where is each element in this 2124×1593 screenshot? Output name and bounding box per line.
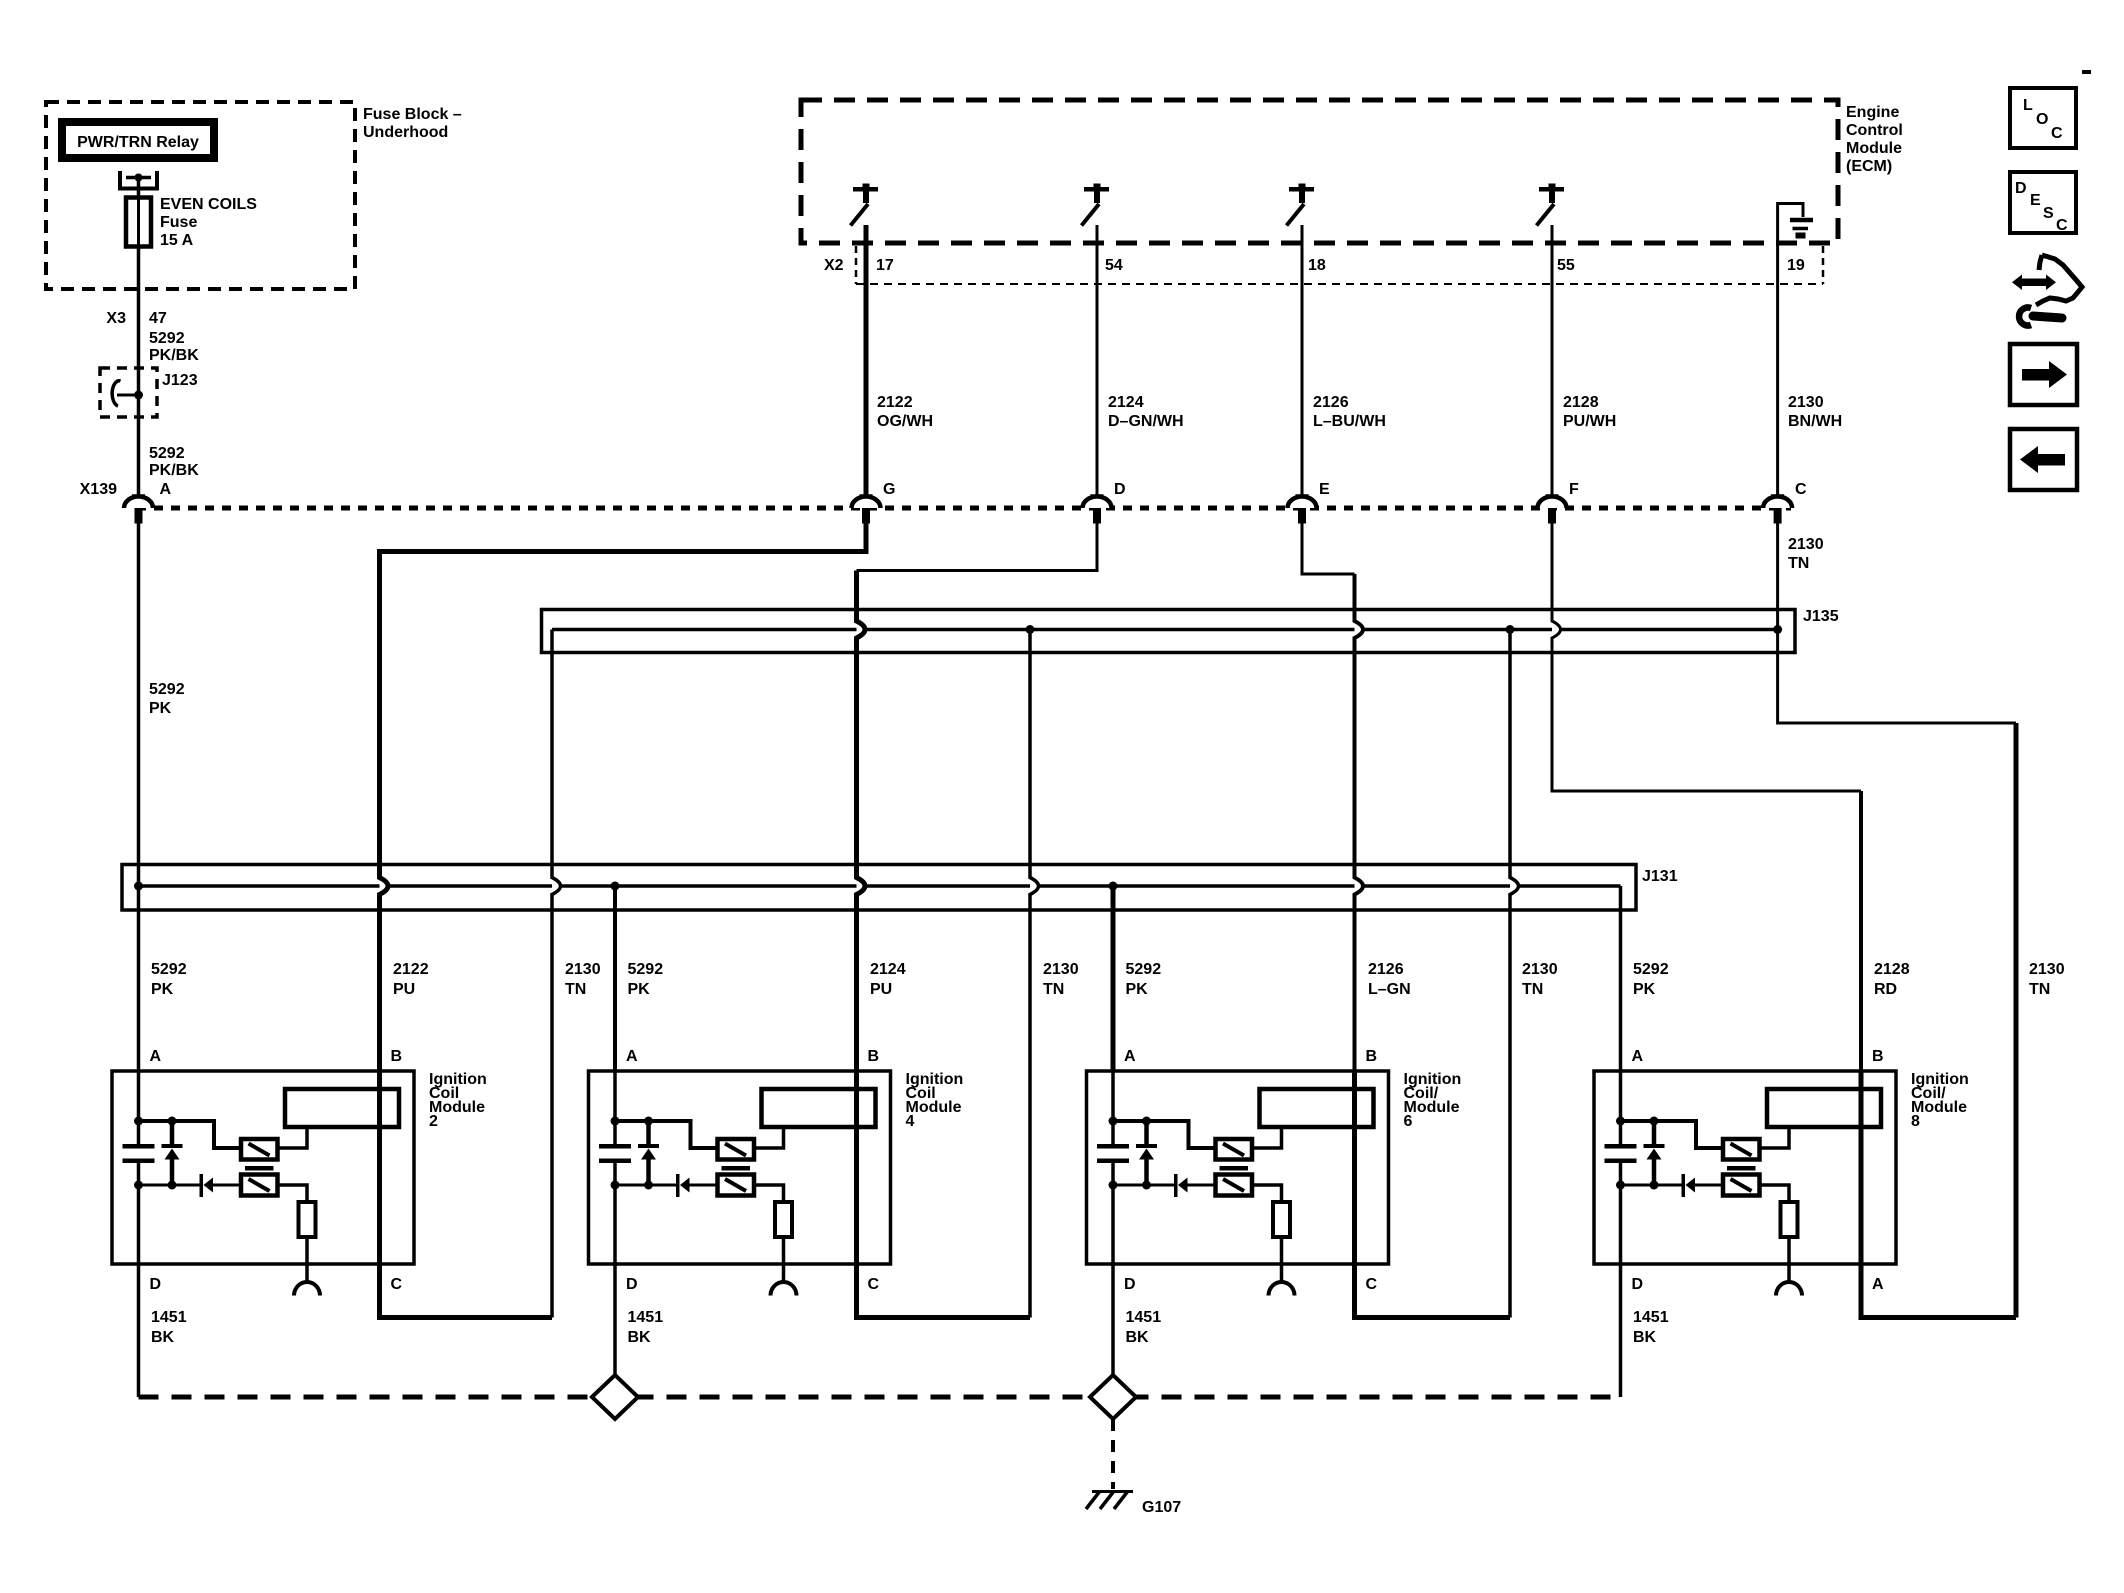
- svg-text:1451: 1451: [1633, 1309, 1669, 1326]
- svg-text:E: E: [1319, 481, 1330, 498]
- label 2130 BN/WH: [1788, 394, 1842, 430]
- relay PWR/TRN Relay: [62, 122, 214, 158]
- module 2 resistor: [299, 1202, 316, 1237]
- svg-text:RD: RD: [1874, 981, 1897, 998]
- svg-text:PU: PU: [870, 981, 892, 998]
- svg-text:PWR/TRN Relay: PWR/TRN Relay: [77, 134, 199, 151]
- svg-text:1451: 1451: [1126, 1309, 1162, 1326]
- svg-text:BN/WH: BN/WH: [1788, 413, 1842, 430]
- svg-text:17: 17: [876, 257, 894, 274]
- X139 terminal A: [124, 496, 153, 524]
- label 2130 TN below C: [1788, 536, 1824, 572]
- module 8 wire opto2 to resistor: [1760, 1185, 1790, 1202]
- module 6 pin letters D C: [1124, 1276, 1378, 1293]
- label X3 47: [106, 310, 166, 327]
- module 2 zener diode: [162, 1121, 183, 1185]
- svg-text:5292: 5292: [149, 445, 185, 462]
- module 6 top rail: [1113, 1121, 1216, 1148]
- label 1451 BK module 8: [1633, 1309, 1669, 1346]
- svg-text:2126: 2126: [1368, 961, 1404, 978]
- label 2126 L-BU/WH: [1313, 394, 1386, 430]
- ignition coil module 4 box: [589, 1071, 964, 1264]
- module 8 zener diode: [1644, 1121, 1665, 1185]
- module 8 spark tower arc: [1776, 1282, 1802, 1296]
- module 8 wire opto1 to coil: [1760, 1127, 1790, 1148]
- module 6 lower rail: [1113, 1184, 1175, 1187]
- splice diamond at module 4 ground: [592, 1375, 638, 1419]
- module 6 low reference wire to riser: [1355, 1264, 1511, 1318]
- svg-text:A: A: [1124, 1048, 1136, 1065]
- label 2128 RD column: [1874, 961, 1910, 998]
- svg-text:BK: BK: [1126, 1329, 1150, 1346]
- svg-text:C: C: [868, 1276, 880, 1293]
- module 4 wire 1451 BK pin D: [613, 1264, 617, 1397]
- X139 terminal D: [1083, 481, 1126, 524]
- wire relay to fuse: [137, 178, 141, 199]
- junction J135 dot at 2130 module 4 riser: [1026, 625, 1035, 634]
- module 8 optocoupler lower: [1723, 1175, 1760, 1196]
- svg-text:D: D: [2015, 180, 2027, 197]
- wire 2128 RD module 8 column: [1859, 791, 1863, 1264]
- relay contact terminal symbol: [120, 171, 157, 189]
- svg-text:C: C: [1795, 481, 1807, 498]
- svg-text:PK/BK: PK/BK: [149, 347, 199, 364]
- wire 2124 module 4 column: [857, 571, 866, 1265]
- svg-text:C: C: [391, 1276, 403, 1293]
- module 6 optocoupler lower: [1216, 1175, 1253, 1196]
- module 2 core bar: [245, 1166, 274, 1171]
- wire 2124 D-GN/WH pin 54 to X139 D: [1096, 225, 1099, 496]
- label 2126 L-GN column: [1368, 961, 1411, 998]
- module 4 low reference wire to riser: [857, 1264, 1031, 1318]
- module 6 wire resistor to tower: [1280, 1237, 1284, 1283]
- ECM output driver 3: [1287, 184, 1315, 226]
- svg-text:D: D: [626, 1276, 638, 1293]
- wire 5292 PK feed module 4 A: [613, 886, 617, 1071]
- module 6 core bar: [1220, 1166, 1249, 1171]
- module 6 optocoupler upper: [1216, 1139, 1253, 1160]
- svg-text:X2: X2: [824, 257, 844, 274]
- svg-text:55: 55: [1557, 257, 1575, 274]
- module 8 capacitor: [1605, 1144, 1637, 1163]
- wire 2128 PU/WH pin 55 to X139 F: [1551, 225, 1554, 496]
- svg-text:6: 6: [1404, 1113, 1413, 1130]
- label 1451 BK module 2: [151, 1309, 187, 1346]
- wire 2126 module 6 column: [1355, 574, 1364, 1264]
- wire 5292 PK feed module 6 A: [1111, 886, 1116, 1071]
- svg-text:Engine: Engine: [1846, 104, 1899, 121]
- svg-text:Fuse: Fuse: [160, 214, 197, 231]
- module 8 diode: [1682, 1174, 1696, 1197]
- junction J131 dot at module 4 A: [611, 882, 620, 891]
- module 4 optocoupler upper: [718, 1139, 755, 1160]
- svg-text:2128: 2128: [1874, 961, 1910, 978]
- svg-text:Fuse Block –: Fuse Block –: [363, 106, 462, 123]
- svg-text:Control: Control: [1846, 122, 1903, 139]
- label 2128 PU/WH: [1563, 394, 1616, 430]
- svg-text:5292: 5292: [628, 961, 664, 978]
- svg-text:D–GN/WH: D–GN/WH: [1108, 413, 1184, 430]
- module 2 coil secondary rect: [285, 1089, 399, 1127]
- module 2 capacitor: [123, 1144, 155, 1163]
- wire 2122 G bend to module 2 column: [380, 524, 867, 1265]
- X2 pin numbers 17 54 18 55 19: [876, 257, 1805, 274]
- wire 2126 L-BU/WH pin 18 to X139 E: [1301, 225, 1304, 496]
- svg-text:L–GN: L–GN: [1368, 981, 1411, 998]
- module 4 wire opto1 to coil: [754, 1127, 784, 1148]
- svg-text:A: A: [1872, 1276, 1884, 1293]
- svg-text:B: B: [868, 1048, 880, 1065]
- svg-text:X139: X139: [80, 481, 117, 498]
- label 2130 TN column: [565, 961, 601, 998]
- svg-text:PU/WH: PU/WH: [1563, 413, 1616, 430]
- module 2 wire resistor to tower: [305, 1237, 309, 1283]
- svg-text:L–BU/WH: L–BU/WH: [1313, 413, 1386, 430]
- module 6 primary B-C wire: [1352, 1071, 1357, 1264]
- wire module 8 low ref to right column: [1861, 1264, 2016, 1318]
- module 6 A internal wire: [1111, 1071, 1115, 1144]
- module 6 wire opto1 to coil: [1252, 1127, 1282, 1148]
- module 2 pin letters A B: [150, 1048, 403, 1065]
- splice pack J131: [122, 865, 1678, 911]
- svg-text:2: 2: [429, 1113, 438, 1130]
- ECM internal ground at pin 19: [1778, 204, 1813, 242]
- icon DESC: [2010, 172, 2076, 234]
- svg-text:G107: G107: [1142, 1499, 1181, 1516]
- label 5292 PK/BK lower: [149, 445, 199, 479]
- icon arrow left: [2010, 429, 2077, 490]
- label 1451 BK module 4: [628, 1309, 664, 1346]
- wire 2130 TN right column: [2014, 723, 2019, 1318]
- svg-text:TN: TN: [1522, 981, 1543, 998]
- module 6 zener diode: [1136, 1121, 1157, 1185]
- module 8 A internal wire: [1619, 1071, 1623, 1144]
- label 5292 PK column: [628, 961, 664, 998]
- svg-text:J135: J135: [1803, 608, 1839, 625]
- module 4 diode: [676, 1174, 690, 1197]
- module 4 resistor: [775, 1202, 792, 1237]
- label 2124 PU column: [870, 961, 906, 998]
- module 4 core bar: [722, 1166, 751, 1171]
- wire 2130 TN riser module 4: [1030, 630, 1039, 1318]
- module 6 capacitor: [1097, 1144, 1129, 1163]
- ground G107: [1086, 1491, 1181, 1516]
- module 4 top rail: [615, 1121, 718, 1148]
- module 2 primary B-C wire: [377, 1071, 382, 1264]
- label 5292 PK: [149, 681, 185, 717]
- module 8 lower rail: [1621, 1184, 1683, 1187]
- svg-text:TN: TN: [1043, 981, 1064, 998]
- label 1451 BK module 6: [1126, 1309, 1162, 1346]
- svg-text:2124: 2124: [870, 961, 906, 978]
- svg-text:OG/WH: OG/WH: [877, 413, 933, 430]
- module 4 spark tower arc: [771, 1282, 797, 1296]
- svg-text:18: 18: [1308, 257, 1326, 274]
- module 6 coil secondary rect: [1260, 1089, 1374, 1127]
- label 2130 TN column: [2029, 961, 2065, 998]
- svg-text:Module: Module: [1846, 140, 1902, 157]
- module 2 optocoupler upper: [241, 1139, 278, 1160]
- module 6 junction dots: [1109, 1117, 1152, 1190]
- icon LOC: [2010, 88, 2076, 148]
- module 2 lower rail: [139, 1184, 201, 1187]
- svg-text:BK: BK: [1633, 1329, 1657, 1346]
- svg-text:EVEN COILS: EVEN COILS: [160, 196, 257, 213]
- junction J131 dot at module 6 A: [1109, 882, 1118, 891]
- module 8 top rail: [1621, 1121, 1724, 1148]
- icon arrow right: [2010, 344, 2077, 405]
- svg-text:5292: 5292: [151, 961, 187, 978]
- junction J135 dot at 2130 module 6 riser: [1506, 625, 1515, 634]
- svg-text:19: 19: [1787, 257, 1805, 274]
- svg-text:2130: 2130: [1788, 536, 1824, 553]
- svg-text:5292: 5292: [1633, 961, 1669, 978]
- wire 5292 PK X139-A down to J131 and module 2 A: [137, 524, 141, 1072]
- svg-text:15 A: 15 A: [160, 232, 194, 249]
- ECM output driver 4: [1537, 184, 1565, 226]
- module 2 optocoupler lower: [241, 1175, 278, 1196]
- ECM dashed box: [801, 100, 1903, 243]
- wire 2130 TN from J135 right end to right column: [1778, 630, 2016, 724]
- svg-text:2122: 2122: [877, 394, 913, 411]
- svg-text:8: 8: [1911, 1113, 1920, 1130]
- module 2 wire 1451 BK pin D: [137, 1264, 141, 1397]
- ground bus 1451 BK dashed: [139, 1395, 1621, 1400]
- svg-text:C: C: [1366, 1276, 1378, 1293]
- svg-text:PU: PU: [393, 981, 415, 998]
- module 2 A internal wire: [137, 1071, 141, 1144]
- label 2122 OG/WH: [877, 394, 933, 430]
- module 4 pin letters A B: [626, 1048, 879, 1065]
- svg-text:D: D: [150, 1276, 162, 1293]
- svg-text:G: G: [883, 481, 895, 498]
- svg-text:C: C: [2051, 125, 2063, 142]
- wire 2124 D bend: [857, 524, 1098, 571]
- svg-text:F: F: [1569, 481, 1579, 498]
- module 4 junction dots: [611, 1117, 654, 1190]
- splice J123: [100, 368, 198, 417]
- svg-text:A: A: [150, 1048, 162, 1065]
- junction J131 dot at 5292 feed A: [134, 882, 143, 891]
- svg-text:2130: 2130: [565, 961, 601, 978]
- svg-text:Underhood: Underhood: [363, 124, 448, 141]
- module 4 wire opto2 to resistor: [754, 1185, 784, 1202]
- module 6 diode: [1174, 1174, 1188, 1197]
- junction J135 dot at 2130 TN right: [1773, 625, 1782, 634]
- svg-text:D: D: [1632, 1276, 1644, 1293]
- ignition coil module 6 box: [1087, 1071, 1462, 1264]
- svg-text:PK/BK: PK/BK: [149, 462, 199, 479]
- module 4 capacitor: [599, 1144, 631, 1163]
- svg-text:(ECM): (ECM): [1846, 158, 1892, 175]
- ignition coil module 2 box: [112, 1071, 487, 1264]
- wire 2130 TN riser module 2 (J135 left end down): [552, 630, 561, 1318]
- module 2 spark tower arc: [294, 1282, 320, 1296]
- module 8 resistor: [1781, 1202, 1798, 1237]
- svg-text:TN: TN: [1788, 555, 1809, 572]
- svg-text:1451: 1451: [628, 1309, 664, 1326]
- module 8 wire resistor to tower: [1787, 1237, 1791, 1283]
- svg-text:X3: X3: [106, 310, 126, 327]
- module 8 wire 1451 BK pin D: [1619, 1264, 1623, 1397]
- svg-text:47: 47: [149, 310, 167, 327]
- splice pack J135: [542, 608, 1839, 653]
- svg-text:2130: 2130: [2029, 961, 2065, 978]
- svg-text:4: 4: [906, 1113, 915, 1130]
- wire 5292 PK feed module 8 A (J131 right end down): [1619, 886, 1623, 1071]
- X139 terminal G: [852, 481, 896, 524]
- hop patches J135 and J131: [857, 621, 866, 638]
- module 2 pin letters D C: [150, 1276, 403, 1293]
- module 8 core bar: [1727, 1166, 1756, 1171]
- module 6 pin letters A B: [1124, 1048, 1377, 1065]
- wire 5292 PK/BK fuse to X139: [137, 247, 141, 497]
- svg-text:2126: 2126: [1313, 394, 1349, 411]
- module 4 wire resistor to tower: [782, 1237, 786, 1283]
- label 5292 PK column: [1126, 961, 1162, 998]
- module 4 zener diode: [638, 1121, 659, 1185]
- svg-text:J131: J131: [1642, 868, 1678, 885]
- fuse block underhood dashed box: [46, 102, 462, 289]
- svg-text:2124: 2124: [1108, 394, 1144, 411]
- ignition coil module 8 box: [1594, 1071, 1969, 1264]
- label 2130 TN column: [1522, 961, 1558, 998]
- svg-text:PK: PK: [1633, 981, 1656, 998]
- module 6 spark tower arc: [1269, 1282, 1295, 1296]
- svg-text:PK: PK: [151, 981, 174, 998]
- svg-text:2130: 2130: [1788, 394, 1824, 411]
- module 2 wire opto2 to resistor: [278, 1185, 308, 1202]
- svg-text:D: D: [1124, 1276, 1136, 1293]
- X139 connector dotted line: [137, 506, 1791, 511]
- module 8 primary B-C wire: [1859, 1071, 1864, 1264]
- svg-text:PK: PK: [149, 700, 172, 717]
- svg-text:E: E: [2030, 192, 2041, 209]
- module 2 top rail: [139, 1121, 242, 1148]
- label 2122 PU column: [393, 961, 429, 998]
- svg-text:2130: 2130: [1522, 961, 1558, 978]
- svg-text:5292: 5292: [149, 681, 185, 698]
- module 8 pin letters D A: [1632, 1276, 1885, 1293]
- module 2 junction dots: [134, 1117, 177, 1190]
- module 4 pin letters D C: [626, 1276, 880, 1293]
- svg-text:BK: BK: [628, 1329, 652, 1346]
- wire 2130 BN/WH pin 19 to X139 C: [1776, 241, 1779, 496]
- module 8 junction dots: [1616, 1117, 1659, 1190]
- label 2130 TN column: [1043, 961, 1079, 998]
- label X139 A: [80, 481, 172, 498]
- svg-text:PK: PK: [628, 981, 651, 998]
- wire 2130 TN riser module 6: [1510, 630, 1519, 1318]
- module 6 wire opto2 to resistor: [1252, 1185, 1282, 1202]
- svg-text:A: A: [626, 1048, 638, 1065]
- svg-text:A: A: [1632, 1048, 1644, 1065]
- ECM output driver 2: [1082, 184, 1110, 226]
- module 2 low reference wire to riser: [380, 1264, 553, 1318]
- X139 terminal E: [1288, 481, 1331, 524]
- module 6 resistor: [1273, 1202, 1290, 1237]
- module 4 coil secondary rect: [762, 1089, 876, 1127]
- label 2124 D-GN/WH: [1108, 394, 1184, 430]
- module 8 optocoupler upper: [1723, 1139, 1760, 1160]
- module 2 wire opto1 to coil: [278, 1127, 308, 1148]
- module 6 wire 1451 BK pin D: [1111, 1264, 1115, 1397]
- top corner tick: [2082, 70, 2091, 74]
- module 2 diode: [200, 1174, 214, 1197]
- wire 2130 TN C down to J135: [1776, 524, 1779, 630]
- svg-text:TN: TN: [2029, 981, 2050, 998]
- wire 2122 OG/WH pin 17 to X139 G: [864, 225, 869, 496]
- svg-text:2130: 2130: [1043, 961, 1079, 978]
- splice diamond at module 6 ground: [1090, 1375, 1136, 1419]
- dashed wire to G107: [1111, 1419, 1115, 1489]
- X139 terminal F: [1538, 481, 1580, 524]
- module 8 pin letters A B: [1632, 1048, 1884, 1065]
- module 8 low reference wire to riser: [1861, 1264, 2016, 1318]
- svg-text:C: C: [2056, 217, 2068, 234]
- svg-text:54: 54: [1105, 257, 1123, 274]
- svg-text:BK: BK: [151, 1329, 175, 1346]
- wire 2128 F down and bend to module 8: [1552, 524, 1861, 792]
- module 4 primary B-C wire: [854, 1071, 859, 1264]
- svg-text:L: L: [2023, 97, 2033, 114]
- icon harness repair (arrows and wrench): [2012, 255, 2082, 325]
- svg-text:1451: 1451: [151, 1309, 187, 1326]
- svg-text:J123: J123: [162, 372, 198, 389]
- svg-text:B: B: [1366, 1048, 1378, 1065]
- svg-text:2128: 2128: [1563, 394, 1599, 411]
- label 5292 PK column: [1633, 961, 1669, 998]
- module 4 optocoupler lower: [718, 1175, 755, 1196]
- module 4 lower rail: [615, 1184, 677, 1187]
- svg-text:PK: PK: [1126, 981, 1149, 998]
- svg-text:2122: 2122: [393, 961, 429, 978]
- X2 connector face: [824, 246, 1823, 284]
- X139 terminal C: [1763, 481, 1807, 524]
- label 5292 PK column: [151, 961, 187, 998]
- module 4 A internal wire: [613, 1071, 617, 1144]
- svg-text:B: B: [1872, 1048, 1884, 1065]
- svg-text:B: B: [391, 1048, 403, 1065]
- label 5292 PK/BK upper: [149, 330, 199, 364]
- svg-text:5292: 5292: [1126, 961, 1162, 978]
- svg-text:S: S: [2043, 205, 2054, 222]
- module 8 coil secondary rect: [1767, 1089, 1881, 1127]
- svg-text:A: A: [160, 481, 172, 498]
- svg-text:TN: TN: [565, 981, 586, 998]
- ECM output driver 1: [851, 184, 879, 226]
- svg-text:O: O: [2036, 111, 2048, 128]
- fuse EVEN COILS 15 A: [126, 196, 257, 249]
- svg-text:5292: 5292: [149, 330, 185, 347]
- wire 2126 E bend: [1302, 524, 1355, 575]
- svg-text:D: D: [1114, 481, 1126, 498]
